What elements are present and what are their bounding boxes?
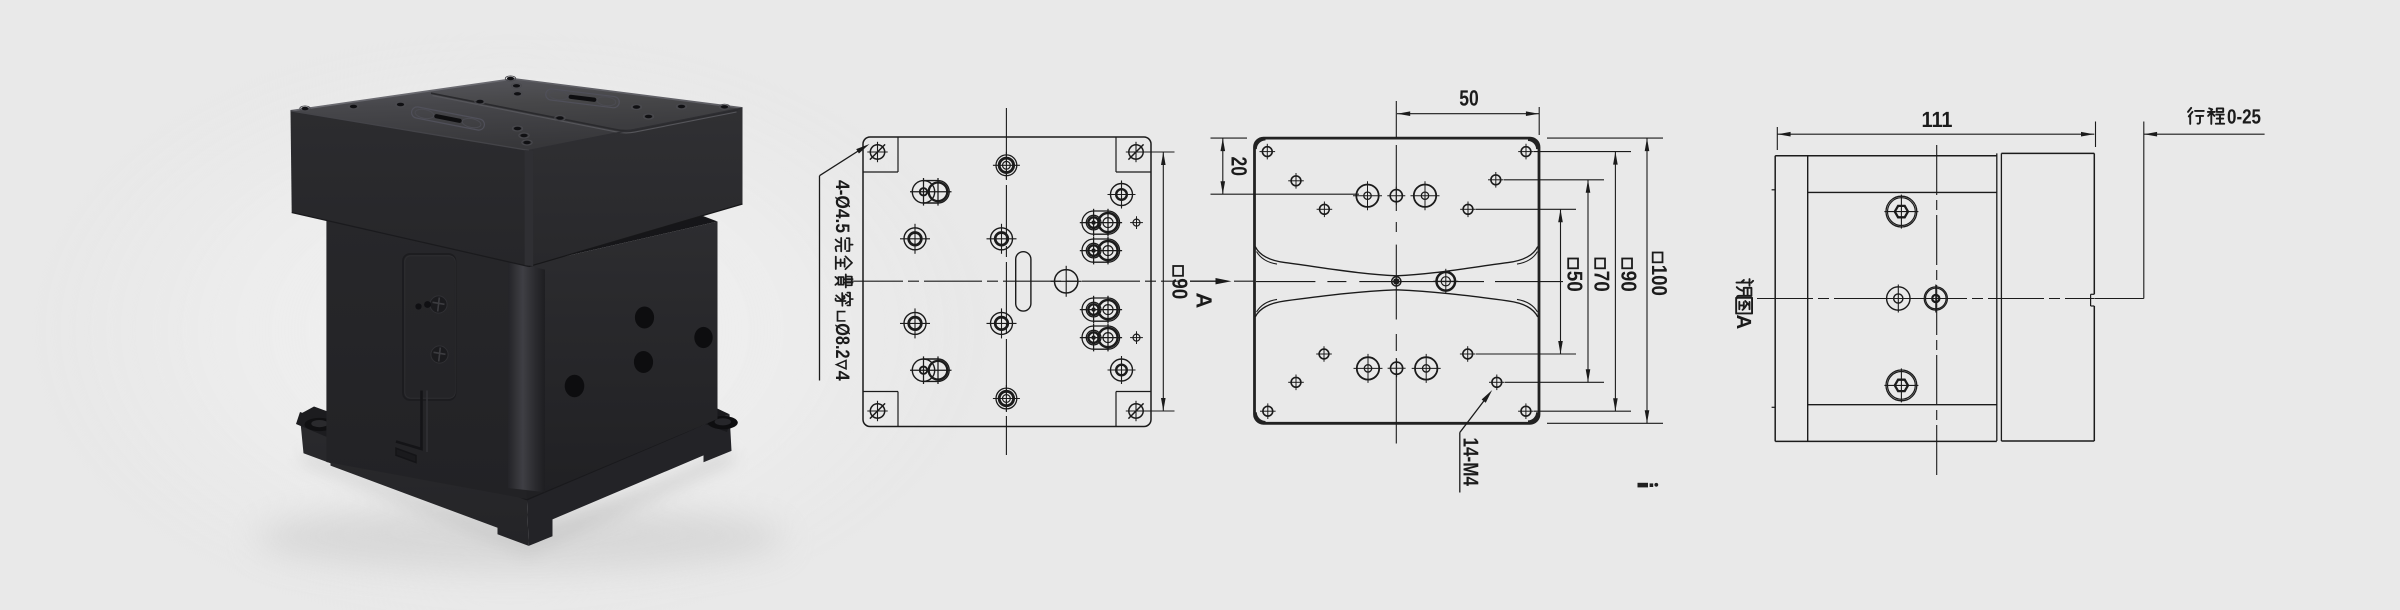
svg-text:50: 50 bbox=[1563, 271, 1587, 292]
svg-text:111: 111 bbox=[1922, 107, 1953, 132]
svg-text:50: 50 bbox=[1459, 86, 1479, 111]
svg-text:90: 90 bbox=[1168, 278, 1192, 299]
svg-text:4-Ø4.5: 4-Ø4.5 bbox=[831, 180, 853, 233]
svg-text:100: 100 bbox=[1647, 265, 1671, 296]
svg-text:Ø8.2: Ø8.2 bbox=[831, 323, 853, 358]
svg-text:A: A bbox=[1732, 315, 1755, 330]
svg-text:0-25: 0-25 bbox=[2227, 105, 2261, 128]
svg-text:4: 4 bbox=[831, 371, 853, 381]
svg-text:20: 20 bbox=[1227, 157, 1252, 177]
svg-text:14-M4: 14-M4 bbox=[1459, 438, 1483, 487]
svg-text:90: 90 bbox=[1617, 271, 1641, 292]
svg-text:A: A bbox=[1192, 293, 1217, 309]
svg-text:70: 70 bbox=[1590, 271, 1614, 292]
